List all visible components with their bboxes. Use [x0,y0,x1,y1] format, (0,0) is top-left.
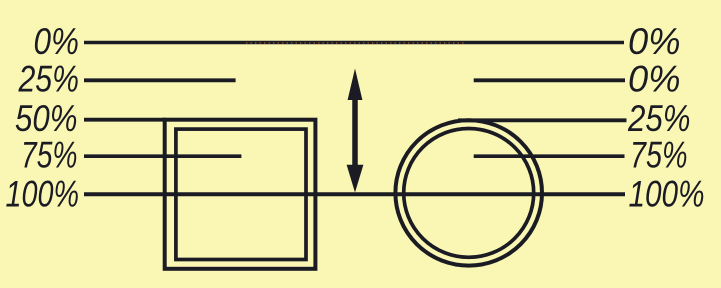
svg-text:0%: 0% [34,21,80,62]
arrow shaft [352,96,358,168]
svg-text:75%: 75% [21,135,78,176]
circle outer ring [395,120,542,265]
square inner box [176,129,306,259]
svg-text:100%: 100% [629,174,705,215]
75% line left segment [84,154,241,158]
0% line [84,41,624,44]
100% line [84,192,625,196]
square outer box [165,120,316,269]
svg-text:25%: 25% [627,98,690,139]
svg-text:0%: 0% [628,21,681,62]
svg-text:0%: 0% [628,59,681,100]
svg-text:50%: 50% [15,98,78,139]
svg-text:75%: 75% [630,135,688,176]
25%/0% line right segment [474,78,625,82]
25%/0% line left segment [84,78,236,82]
arrow top head [348,69,363,101]
svg-text:25%: 25% [18,59,79,100]
circle inner ring [404,129,534,258]
svg-text:100%: 100% [6,174,80,215]
arrow bottom head [347,165,364,193]
75% line right segment [474,154,625,158]
50%/25% line left segment [84,118,166,122]
50%/25% line right segment [458,118,627,122]
0% line middle dot texture [246,42,465,44]
